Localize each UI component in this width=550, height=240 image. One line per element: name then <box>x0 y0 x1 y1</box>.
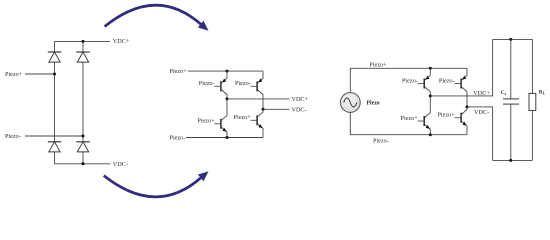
AC source (Piezo) <box>340 93 360 113</box>
node: VDC+ junction <box>429 94 432 97</box>
svg-text:VDC+: VDC+ <box>292 96 309 103</box>
transistor Q2 (upper-right PNP) <box>251 71 264 109</box>
wire: VDC+ line <box>227 98 289 100</box>
svg-text:VDC+: VDC+ <box>473 90 490 97</box>
wire: source to bottom rail <box>350 112 467 134</box>
node: Piezo- junction <box>82 135 85 138</box>
node: top rail junction <box>429 67 432 70</box>
diode D3 (bottom left) <box>48 142 61 152</box>
middle H-bridge circuit <box>170 68 309 141</box>
wire: VDC- line <box>263 108 289 110</box>
svg-text:Piezo-: Piezo- <box>199 80 215 87</box>
transistor Q7 (lower-left NPN) <box>418 96 431 135</box>
capacitor Cs <box>503 39 519 160</box>
node: Piezo+ junction <box>53 73 56 76</box>
svg-text:Cs: Cs <box>501 90 507 96</box>
node: top rail junction <box>226 70 229 73</box>
transistor Q5 (upper-left PNP) <box>418 68 431 96</box>
bottom curved arrow <box>104 171 209 196</box>
transistor Q1 (upper-left PNP) <box>214 71 227 99</box>
svg-text:Piezo+: Piezo+ <box>5 71 23 78</box>
svg-text:Piezo-: Piezo- <box>402 77 418 84</box>
wire: output top rail <box>493 38 533 40</box>
node: output bottom junction <box>509 159 512 162</box>
svg-text:Piezo-: Piezo- <box>5 133 21 140</box>
wire: VDC- line to output <box>467 107 493 160</box>
wire: left branch <box>54 41 56 52</box>
node: bottom rail junction <box>429 133 432 136</box>
node: VDC- junction <box>262 108 265 111</box>
node: top rail junction <box>82 40 85 43</box>
transistor Q6 (upper-right PNP) <box>455 68 468 107</box>
diode D4 (bottom right) <box>76 142 89 152</box>
wire: Piezo- lead (crosses left branch) <box>25 135 83 137</box>
svg-text:VDC-: VDC- <box>113 161 128 168</box>
svg-text:Piezo-: Piezo- <box>439 77 455 84</box>
node: bottom rail junction <box>226 136 229 139</box>
node: bottom rail junction <box>82 162 85 165</box>
svg-text:VDC-: VDC- <box>292 106 307 113</box>
wire: right branch <box>82 41 84 52</box>
svg-text:VDC-: VDC- <box>474 109 489 116</box>
right full circuit <box>340 38 545 162</box>
wire: Piezo+ lead <box>25 73 55 75</box>
svg-text:Piezo-: Piezo- <box>373 138 389 145</box>
svg-text:RL: RL <box>539 89 546 95</box>
svg-text:Piezo+: Piezo+ <box>197 118 215 125</box>
wire: top rail to VDC+ <box>55 40 111 42</box>
svg-text:Piezo+: Piezo+ <box>369 61 387 68</box>
node: output top junction <box>509 38 512 41</box>
svg-text:Piezo-: Piezo- <box>170 134 186 141</box>
transistor Q3 (lower-left NPN) <box>214 99 227 138</box>
node: VDC- junction <box>466 105 469 108</box>
svg-text:Piezo+: Piezo+ <box>437 112 455 119</box>
svg-text:Piezo+: Piezo+ <box>170 68 188 75</box>
svg-text:VDC+: VDC+ <box>113 38 130 45</box>
svg-text:Piezo-: Piezo- <box>235 80 251 87</box>
wire: bottom rail to VDC- <box>55 163 111 165</box>
svg-text:Piezo: Piezo <box>367 101 380 107</box>
resistor RL <box>529 39 536 160</box>
wire: VDC+ line to output <box>430 39 492 96</box>
diode D2 (top right) <box>76 52 89 62</box>
wire: bottom stubs <box>54 152 56 164</box>
transistor Q4 (lower-right NPN) <box>251 109 264 137</box>
wire: source to top rail <box>350 68 467 92</box>
wire: top rail <box>188 70 263 72</box>
diode D1 (top left) <box>48 52 61 62</box>
node: VDC+ junction <box>226 97 229 100</box>
wire: bottom rail <box>186 137 263 139</box>
left diode bridge rectifier <box>5 38 130 168</box>
svg-text:Piezo+: Piezo+ <box>401 115 419 122</box>
top curved arrow <box>105 5 209 30</box>
svg-text:Piezo+: Piezo+ <box>234 114 252 121</box>
wire: output bottom rail <box>493 159 533 161</box>
transistor Q8 (lower-right NPN) <box>455 107 468 135</box>
